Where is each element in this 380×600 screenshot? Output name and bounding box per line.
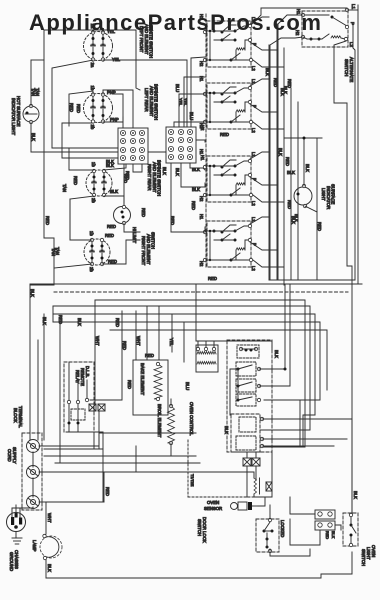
wire harness connector (315, 510, 335, 519)
wire top right to TB (104, 164, 126, 170)
relay K3 (236, 379, 256, 392)
relay K2 (236, 362, 256, 376)
wire rail y456 (44, 455, 196, 457)
chassis ground (15, 532, 17, 538)
svg-text:RED: RED (287, 79, 292, 88)
wire L1 top (347, 9, 358, 11)
wire tan left vertical (43, 30, 45, 238)
wire left to tb row 152 (31, 151, 118, 153)
wire supply links (32, 452, 34, 467)
DLB relay contacts (67, 400, 70, 403)
wire rail n (39, 472, 254, 478)
wire winding out (253, 494, 255, 497)
oven sensor probe (231, 503, 238, 510)
svg-text:1b: 1b (91, 162, 96, 167)
wire conn left (290, 497, 315, 514)
wire sensor dashed (188, 496, 272, 498)
wire trunk left vertical (52, 306, 54, 322)
wire TB2 to rf (181, 163, 205, 187)
wire pnp right (103, 90, 133, 128)
wire relay left links (237, 369, 239, 400)
wire unit L1 to bus (250, 17, 269, 24)
wire 2b bottom right (103, 117, 123, 122)
svg-text:H2: H2 (199, 261, 204, 267)
wire hilimit down (124, 223, 140, 232)
hot surface indicator light (23, 106, 39, 122)
wire right corner a (299, 400, 301, 447)
dashed T1 line (187, 440, 189, 497)
wire bank bus BLK (268, 45, 270, 280)
svg-text:WHT: WHT (136, 336, 141, 346)
wire unit P to bus (250, 42, 277, 50)
svg-text:RED: RED (220, 132, 229, 137)
wire k outputs (259, 368, 285, 370)
svg-text:LAMP: LAMP (32, 540, 37, 552)
wire lamp bottom (45, 560, 47, 578)
supply terminal 3 (27, 496, 40, 509)
wire bottom left (54, 264, 92, 285)
wire bottom right (104, 196, 124, 203)
svg-text:L2: L2 (251, 266, 256, 271)
svg-text:PNP: PNP (110, 117, 119, 122)
wire unit L1 to bus (250, 217, 269, 224)
svg-text:RED: RED (105, 487, 110, 496)
surface switch unit (207, 83, 251, 129)
svg-text:RIGHT REAR: RIGHT REAR (147, 164, 152, 190)
svg-text:RED: RED (287, 200, 292, 209)
svg-text:YEL: YEL (183, 98, 188, 107)
svg-text:BLK: BLK (31, 133, 36, 141)
hi-limit thermostat (114, 207, 131, 224)
svg-text:BLK: BLK (274, 350, 279, 358)
wire bank bus BLK2 (283, 48, 285, 285)
svg-text:TAN: TAN (62, 184, 67, 192)
svg-text:H1: H1 (199, 214, 204, 220)
svg-text:BLK: BLK (331, 531, 335, 539)
svg-text:BLK: BLK (192, 187, 200, 192)
wire trunk 7 (110, 330, 327, 390)
DLB remote relay (64, 362, 94, 432)
wire door lock top (269, 505, 271, 519)
svg-text:RED: RED (208, 276, 217, 281)
svg-text:RED: RED (125, 171, 130, 180)
svg-text:BAKE ELEMENT: BAKE ELEMENT (140, 363, 145, 396)
alternate switch (302, 11, 348, 47)
svg-text:LOCKED: LOCKED (280, 520, 285, 537)
oven control edge connector (196, 345, 218, 372)
wire trunk 3 (53, 306, 310, 430)
svg-text:BLK: BLK (175, 168, 180, 176)
supply terminal block box (22, 433, 42, 510)
svg-text:OVEN: OVEN (207, 500, 219, 505)
surface switch unit (207, 21, 251, 67)
wire trunk 5 (53, 322, 320, 400)
wire left to tb row 148 (52, 147, 118, 149)
wire bulb jog (31, 59, 44, 61)
oven lamp (40, 536, 62, 558)
wire rail y433 (99, 432, 196, 434)
svg-text:H1: H1 (200, 155, 205, 161)
svg-text:LIGHT: LIGHT (321, 188, 326, 201)
svg-text:BLK: BLK (280, 88, 285, 96)
wire plug leads (11, 508, 13, 517)
wire top left to bus (69, 148, 94, 170)
wire unit P to bus (250, 242, 277, 250)
wire bottom bus (46, 574, 352, 578)
wire L1 bus left (261, 7, 347, 9)
terminal block TB1 (118, 128, 148, 164)
wire H2 unit2 to TB2 (174, 122, 205, 127)
sensor connector (243, 458, 251, 466)
wire yel right down (136, 30, 140, 90)
wire H terminals to TB2 (179, 94, 205, 127)
wire right corner b (264, 399, 320, 401)
wire drop7 (183, 322, 185, 362)
svg-text:BLK: BLK (291, 216, 296, 224)
svg-text:BLK: BLK (47, 564, 52, 572)
svg-text:INDICATOR LIGHT: INDICATOR LIGHT (11, 98, 16, 135)
wire red drop rail (102, 449, 104, 502)
svg-text:RED: RED (325, 531, 329, 539)
wire L2 alternate staircase (334, 41, 352, 513)
svg-text:RED: RED (107, 224, 116, 229)
svg-text:2b: 2b (89, 267, 94, 272)
wire conn right (335, 525, 341, 530)
wire yel bottom (103, 60, 187, 127)
wire red lead x60 (59, 322, 61, 463)
oven light switch (343, 513, 358, 546)
wire trunk 6 (95, 300, 305, 447)
infinite switch 1b 2b (84, 239, 110, 265)
svg-text:YEL: YEL (178, 98, 183, 107)
wire sensor up (271, 452, 273, 497)
wire bottom left 2b (62, 123, 93, 158)
svg-text:H2: H2 (200, 125, 205, 131)
wire supply rail 1 (39, 445, 99, 447)
wire trunk 1 (30, 284, 362, 440)
wire door lock bottom (270, 549, 310, 556)
wire red vertical x317 (316, 138, 318, 280)
wire H2 unit1 to TB2 (191, 57, 205, 127)
wire TB2 bottom long (171, 163, 205, 232)
wire right v1 (260, 429, 310, 431)
wire bottom right (102, 240, 140, 264)
svg-text:GROUND: GROUND (9, 552, 14, 571)
wire unit L2 to bus (253, 122, 284, 129)
wire rail box edge (135, 446, 137, 472)
svg-text:LEFT REAR: LEFT REAR (144, 88, 149, 112)
svg-text:RED: RED (76, 104, 81, 113)
wire sensor right (258, 497, 265, 506)
wire yel top left (44, 29, 93, 31)
wire k out vertical (284, 284, 286, 369)
svg-text:BLK: BLK (110, 189, 118, 194)
door latch motor winding (254, 478, 257, 494)
infinite switch 1b 2b (84, 94, 113, 123)
svg-text:WHT: WHT (47, 513, 52, 523)
svg-text:SENSOR: SENSOR (204, 506, 222, 511)
wire left mid (69, 199, 71, 240)
wire tb1-tb2 link (148, 151, 166, 153)
relay K4 (236, 394, 256, 406)
wire TB1 col2 down (133, 164, 142, 172)
surface switch unit (207, 221, 251, 267)
svg-text:L2: L2 (251, 128, 256, 133)
svg-text:2b: 2b (90, 125, 95, 130)
svg-text:RED: RED (191, 201, 196, 210)
wire rail y463 (55, 462, 200, 464)
wire unit L2 to bus (253, 60, 284, 67)
wire oven light top (351, 419, 353, 440)
bank left dashed boundary (205, 14, 207, 267)
svg-text:BLK: BLK (278, 148, 283, 156)
svg-text:1b: 1b (89, 231, 94, 236)
svg-text:BLK: BLK (265, 68, 270, 76)
wire yel top (93, 30, 136, 32)
svg-text:RIGHT FRONT: RIGHT FRONT (141, 236, 146, 266)
wire unit L1 to bus (250, 79, 269, 86)
svg-text:RED: RED (141, 208, 146, 217)
svg-text:L2: L2 (251, 66, 256, 71)
svg-text:BLK: BLK (287, 170, 295, 175)
wire drop3 (135, 311, 137, 360)
svg-text:BLK: BLK (42, 317, 47, 325)
wire trunk stub (30, 284, 54, 286)
wire bank bus RED (276, 24, 278, 280)
wire oven control top (196, 341, 272, 350)
wire drop5 (158, 306, 160, 360)
DLB connector boxes (89, 404, 96, 411)
wire oven light drop (351, 552, 353, 574)
wire dlb box bottom (68, 425, 70, 432)
wire left to tb row 158 (62, 157, 118, 159)
wire rail y449 (44, 448, 103, 450)
wire light down red (305, 206, 317, 212)
svg-text:HI LIMIT: HI LIMIT (132, 227, 137, 243)
wire dlb verticals (93, 432, 95, 449)
wire drop4 (146, 306, 148, 360)
wire 2a diagonal (52, 60, 93, 148)
svg-text:P: P (350, 22, 355, 25)
wire TB1 down to hilimit (123, 164, 125, 206)
wire dlb top leads (68, 362, 70, 400)
svg-text:RED: RED (317, 222, 322, 231)
wire unit P to bus (250, 104, 277, 112)
svg-text:RED: RED (45, 216, 50, 225)
broil element (168, 406, 175, 443)
svg-text:H2: H2 (199, 196, 204, 202)
wire bank bus 4 (290, 88, 292, 280)
wire right v2 (303, 415, 315, 447)
wire lamp top (45, 502, 47, 534)
wire wht drop (94, 300, 96, 404)
relay K1 (237, 345, 259, 358)
wire sensor connector leads (246, 452, 248, 458)
wire drop8 (195, 285, 197, 341)
infinite switch 1b 2b (86, 170, 112, 196)
svg-text:TAN: TAN (55, 247, 60, 255)
svg-text:RED: RED (285, 157, 290, 166)
oven control lower box (231, 414, 260, 452)
door lock switch (256, 519, 279, 552)
wire broil top (170, 399, 172, 406)
wire trunk 2 (269, 279, 355, 281)
wire P alternate (353, 25, 355, 280)
surface switch unit (207, 156, 251, 202)
wire trunk 4 (53, 314, 315, 415)
svg-text:RELAY: RELAY (75, 370, 80, 384)
wire broil bottom (171, 443, 196, 456)
wire unit L1 to bus (250, 152, 269, 159)
wire pnp to tb1 (113, 94, 123, 128)
svg-text:RED: RED (69, 103, 74, 112)
svg-text:BLU: BLU (189, 112, 194, 120)
svg-text:2a: 2a (90, 63, 95, 68)
wire bank bus 5 (297, 102, 299, 280)
svg-text:TAN: TAN (35, 88, 40, 96)
oven control outer box (227, 340, 272, 452)
svg-text:RED: RED (58, 315, 63, 324)
wire pnp top left (69, 91, 93, 126)
wire L1 bus diag unit1 (250, 8, 261, 26)
svg-text:RED: RED (145, 353, 154, 358)
svg-text:BLK: BLK (353, 491, 358, 499)
svg-text:BLK: BLK (162, 167, 167, 175)
infinite switch 1a 2a (84, 32, 113, 61)
power supply plug (7, 513, 26, 532)
svg-text:RED: RED (108, 259, 117, 264)
wires oven control right (262, 418, 352, 420)
svg-text:YEL: YEL (169, 338, 174, 347)
svg-text:SWITCH: SWITCH (361, 549, 366, 566)
wire unit P to bus (250, 177, 277, 185)
terminal block TB2 (166, 127, 196, 163)
svg-text:BLOCK: BLOCK (13, 408, 18, 423)
svg-text:RED: RED (127, 380, 132, 389)
wire branch blk (284, 137, 322, 139)
svg-text:RED: RED (122, 341, 127, 350)
wire TB2 right steps (190, 163, 203, 168)
wire right v3 (264, 446, 305, 448)
svg-text:RED: RED (105, 233, 114, 238)
wire unit L2 to bus (253, 260, 284, 267)
svg-text:SWITCH: SWITCH (197, 519, 202, 536)
svg-text:L2: L2 (251, 201, 256, 206)
wire tb leads (37, 340, 39, 440)
surface indicator light (294, 187, 312, 205)
wire conn down (290, 519, 320, 545)
wire L1 right vertical (357, 5, 359, 284)
wire drop2 (90, 311, 122, 400)
svg-text:BLK: BLK (305, 164, 310, 172)
supply terminal 1 (27, 440, 40, 453)
svg-text:T1/T2E: T1/T2E (190, 474, 194, 487)
wire unit L2 to bus (253, 195, 284, 202)
svg-text:CORD: CORD (7, 449, 12, 462)
svg-text:BLK: BLK (106, 159, 114, 164)
svg-text:YEL: YEL (112, 57, 121, 62)
svg-text:WHT: WHT (95, 336, 100, 346)
svg-text:2b: 2b (91, 198, 96, 203)
wire l2 right (46, 501, 104, 503)
svg-text:RED: RED (73, 176, 78, 185)
svg-text:BLK: BLK (224, 426, 229, 434)
svg-text:OVEN CONTROL: OVEN CONTROL (189, 402, 194, 436)
wire top left (70, 239, 92, 241)
svg-text:AppliancePartsPros.com: AppliancePartsPros.com (29, 10, 322, 35)
svg-text:1b: 1b (90, 86, 95, 91)
svg-text:RED: RED (273, 78, 278, 87)
supply terminal 2 (27, 466, 40, 479)
wire H1 unit2 to TB2 (184, 77, 205, 127)
wire trunk dashed (54, 291, 348, 293)
svg-text:SWITCH: SWITCH (344, 59, 349, 76)
alternate switch contacts (301, 13, 304, 16)
svg-text:BLK: BLK (30, 289, 35, 297)
wire l2 out (39, 501, 46, 503)
wire drop6 (171, 314, 173, 352)
svg-text:H2: H2 (199, 61, 204, 67)
wire TB2 to H1 (196, 140, 205, 142)
wire H1 alternate to bus (278, 15, 303, 280)
svg-text:BLU: BLU (175, 84, 180, 92)
wire bottom left diag (70, 196, 94, 239)
svg-text:L1: L1 (351, 4, 356, 10)
svg-text:BLU: BLU (185, 382, 190, 390)
wire H2 alternate to bus (270, 37, 303, 280)
bake element (133, 360, 168, 415)
